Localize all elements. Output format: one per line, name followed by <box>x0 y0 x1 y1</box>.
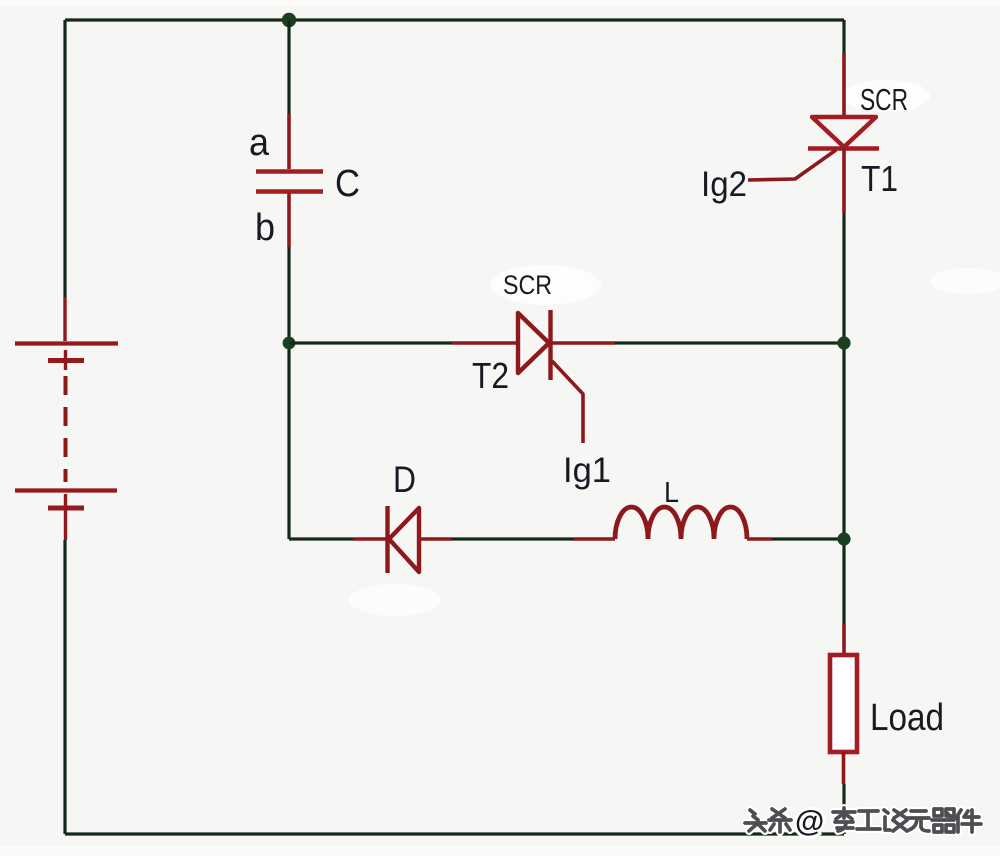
watermark gray strokes <box>745 808 981 832</box>
svg-text:L: L <box>664 477 679 509</box>
SCR T1 triangle <box>812 117 876 147</box>
wire bottom (y=834) <box>65 832 844 835</box>
wire stub red right of D <box>419 537 451 541</box>
node mid-right junction dot <box>837 336 850 349</box>
inductor L humps <box>615 507 747 539</box>
wire lower row green mid <box>451 537 574 540</box>
wire mid row green left <box>289 341 452 344</box>
svg-text:T2: T2 <box>472 355 509 396</box>
svg-text:D: D <box>393 459 416 500</box>
load resistor rectangle <box>830 655 857 752</box>
wire stub red left of T2 <box>452 341 518 345</box>
node lower-right junction dot <box>837 532 850 545</box>
node top junction dot <box>282 13 296 27</box>
battery cell 1 short plate <box>48 358 84 363</box>
svg-text:a: a <box>249 122 270 164</box>
svg-text:SCR: SCR <box>503 270 552 300</box>
battery cell 2 long plate <box>15 488 117 492</box>
wire left upper (x=65) <box>63 20 66 297</box>
wire stub red left of L <box>574 537 615 541</box>
wire stub red below load <box>842 752 846 784</box>
capacitor stub red lower <box>287 193 291 247</box>
wire lower row green right <box>772 537 844 540</box>
wire right top segment <box>842 20 845 53</box>
capacitor stub red upper <box>287 114 291 169</box>
SCR T1 gate lead <box>748 150 836 180</box>
wire stub red above T1 <box>842 53 846 116</box>
SCR T2 triangle <box>518 313 549 373</box>
white patch behind top SCR label <box>842 80 930 112</box>
wire stub red right of T2 <box>550 341 615 345</box>
wire stub red above battery <box>63 297 66 341</box>
wire stub red right of L <box>747 537 772 541</box>
wire stub red below T1 <box>842 148 846 213</box>
capacitor C bottom plate <box>256 189 323 193</box>
svg-text:b: b <box>255 207 275 249</box>
SCR T1 cathode bar <box>808 146 879 150</box>
diode D cathode bar <box>385 506 389 573</box>
battery cell 2 short plate <box>48 506 84 511</box>
wire stub red above load <box>842 624 846 655</box>
diode D triangle <box>389 508 419 572</box>
svg-text:Load: Load <box>870 697 944 739</box>
white patch right mid edge <box>930 268 1000 294</box>
capacitor branch green upper <box>287 20 290 114</box>
node mid-left junction dot <box>283 337 296 350</box>
svg-text:T1: T1 <box>861 158 898 199</box>
wire top (y=20, x65-844) <box>65 18 844 21</box>
wire mid row green right <box>615 341 844 344</box>
svg-text:Ig1: Ig1 <box>563 451 611 490</box>
wire lower row green left <box>289 537 353 540</box>
battery cell 1 center stub <box>64 350 67 370</box>
svg-text:Ig2: Ig2 <box>701 165 747 204</box>
white patch behind mid SCR label <box>491 265 601 305</box>
wire left lower (x=65) <box>63 540 66 834</box>
battery cell 2 center stub + red below <box>64 494 67 540</box>
wire stub red left of D <box>353 537 388 541</box>
white patch below diode D <box>349 584 441 616</box>
wire right middle segment <box>842 213 845 624</box>
battery cell 1 long plate <box>15 341 118 345</box>
svg-text:C: C <box>335 163 360 205</box>
battery dashed wire <box>64 376 68 482</box>
watermark white halo <box>745 808 981 832</box>
wire right bottom segment <box>842 784 845 834</box>
svg-text:SCR: SCR <box>860 82 908 117</box>
SCR T2 cathode bar <box>548 310 552 380</box>
SCR T2 gate lead <box>552 361 583 443</box>
svg-text:@: @ <box>795 805 824 838</box>
capacitor branch green lower <box>287 247 290 539</box>
capacitor C top plate <box>256 169 323 173</box>
